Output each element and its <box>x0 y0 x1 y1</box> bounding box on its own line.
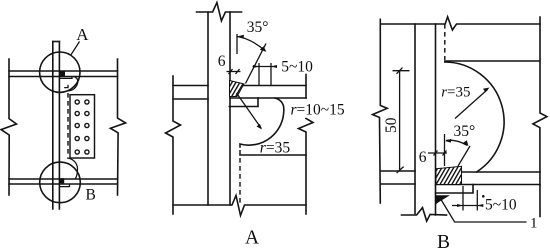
right beam flange top line <box>462 171 541 173</box>
detail circle B <box>40 162 81 203</box>
35deg reference line <box>236 34 238 54</box>
35deg dimension arc with arrows <box>446 140 467 145</box>
left beam flange top line <box>173 85 208 87</box>
svg-text:35°: 35° <box>454 123 476 140</box>
column left flange line <box>414 24 416 214</box>
left beam bottom flange bottom line <box>380 183 415 185</box>
root gap 5~10 dimension <box>462 186 464 211</box>
backing bar <box>229 98 258 107</box>
right beam flange top line <box>244 85 307 87</box>
svg-text:6: 6 <box>218 53 226 70</box>
web cope at bottom flange <box>67 158 78 179</box>
svg-text:5~10: 5~10 <box>485 197 517 214</box>
bevel edge line <box>458 146 470 166</box>
column right flange line <box>435 24 437 215</box>
svg-text:5~10: 5~10 <box>281 58 313 75</box>
leader to label A <box>71 42 80 56</box>
wire: left beam break line <box>1 59 16 195</box>
svg-text:B: B <box>437 232 450 250</box>
right beam break line <box>533 17 547 217</box>
50 dimension line <box>399 71 401 170</box>
wire: beam top flange upper line <box>9 70 118 72</box>
right beam flange bottom line <box>230 97 306 99</box>
right beam break line <box>299 75 314 215</box>
left beam break line <box>373 19 388 203</box>
35deg reference line <box>444 134 446 166</box>
wire: right beam break line <box>110 59 125 195</box>
svg-text:r=35: r=35 <box>441 85 470 101</box>
svg-text:35°: 35° <box>247 19 269 36</box>
hidden web edge dashed below cope <box>239 150 241 203</box>
small backing bar over bottom weld <box>59 184 69 187</box>
wire: beam bottom flange lower line <box>9 183 118 185</box>
column top break line <box>197 3 242 21</box>
leader to backing bar item 1 <box>441 200 527 223</box>
svg-text:1: 1 <box>530 215 538 231</box>
weld at top flange (detail A location) <box>59 71 65 76</box>
web cope curve r=35 <box>445 62 504 172</box>
left beam break line <box>166 76 181 214</box>
left beam bottom flange top line <box>380 170 415 172</box>
shear plate bottom edge <box>445 60 540 62</box>
wire: beam top flange lower line <box>9 76 118 78</box>
bottom break line <box>173 196 306 216</box>
groove weld (hatched) <box>436 166 462 184</box>
web cope curve r=10~15 then r=35 <box>240 98 284 147</box>
svg-text:B: B <box>86 186 96 203</box>
seal weld (black) <box>435 195 450 205</box>
shear plate with bolts <box>70 95 95 158</box>
small backing bar under top weld <box>60 77 72 79</box>
column bottom break line <box>402 208 447 222</box>
right beam flange bottom line <box>436 184 541 186</box>
hidden beam web edge dashed <box>444 24 446 60</box>
root gap 5~10 dimension <box>258 63 260 86</box>
top edge line with column break <box>380 17 540 30</box>
bolt holes <box>75 100 89 154</box>
cope step detail <box>64 85 68 88</box>
bevel edge line (35 degrees) <box>246 44 267 84</box>
shear plate top edge <box>240 154 306 156</box>
svg-text:50: 50 <box>383 117 400 133</box>
svg-text:A: A <box>76 25 89 44</box>
column right flange line <box>229 12 231 205</box>
svg-text:A: A <box>245 228 259 249</box>
svg-text:r=35: r=35 <box>260 139 291 156</box>
web cope at top flange <box>68 76 78 90</box>
weld at bottom flange (detail B location) <box>59 178 64 183</box>
hidden beam web edge (dashed) <box>67 93 69 157</box>
wire: beam bottom flange upper line <box>9 178 118 180</box>
35deg dimension arc with arrows <box>237 37 266 52</box>
svg-text:r=10~15: r=10~15 <box>291 102 345 119</box>
svg-text:6: 6 <box>419 149 427 166</box>
detail circle A <box>40 52 80 92</box>
column left flange line <box>207 12 209 205</box>
left beam flange bottom line <box>173 98 208 100</box>
groove weld (hatched) <box>230 81 245 97</box>
leader arrow to cope radius <box>237 93 262 128</box>
backing bar <box>436 185 474 194</box>
column (vertical plate) <box>52 42 54 210</box>
